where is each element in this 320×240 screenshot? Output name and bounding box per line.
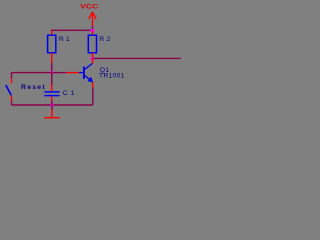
switch Reset arm bbox=[6, 85, 11, 95]
wire: base junction to transistor base pin bbox=[52, 72, 67, 74]
resistor R1 pin bottom bbox=[51, 53, 53, 63]
transistor Q1 bbox=[79, 63, 93, 82]
node: R2 bottom junction bbox=[91, 57, 94, 60]
node: VCC junction bbox=[91, 29, 95, 32]
capacitor C1 pin top bbox=[51, 85, 53, 92]
wire: horizontal from R2 bottom to right edge bbox=[93, 57, 181, 59]
transistor Q1 collector pin bbox=[92, 59, 94, 64]
svg-text:VCC: VCC bbox=[80, 4, 98, 11]
svg-text:Reset: Reset bbox=[21, 84, 45, 91]
wire: VCC stem lower part bbox=[92, 26, 94, 30]
wire: switch top corner to base junction bbox=[12, 72, 52, 74]
node: base junction bbox=[50, 71, 53, 74]
ground: wire below junction bbox=[51, 105, 53, 110]
resistor R2 pin bottom bbox=[92, 53, 94, 59]
node: ground junction bbox=[50, 104, 53, 107]
resistor R1 pin top bbox=[51, 31, 53, 36]
switch Reset top pin bbox=[11, 78, 13, 83]
wire: R1 bottom to base junction bbox=[51, 63, 53, 73]
switch Reset bottom pin bbox=[11, 96, 13, 102]
wire: base junction down toward capacitor bbox=[51, 73, 53, 85]
wire: corner down to R1 pin bbox=[51, 30, 53, 31]
resistor R2 body bbox=[88, 35, 96, 53]
resistor R2 pin top bbox=[92, 31, 94, 35]
capacitor C1 plates bbox=[44, 91, 59, 93]
svg-text:TR1001: TR1001 bbox=[99, 73, 125, 80]
transistor Q1 base pin bbox=[67, 72, 80, 74]
transistor Q1 emitter pin bbox=[92, 82, 94, 88]
wire: capacitor to ground junction bbox=[51, 101, 53, 106]
wire: top horizontal R1 to VCC bbox=[51, 29, 93, 31]
capacitor C1 pin bottom bbox=[51, 97, 53, 101]
switch Reset: wire from top corner down bbox=[11, 73, 13, 79]
ground symbol bbox=[44, 110, 60, 118]
wire: switch bottom to rail corner bbox=[11, 101, 13, 105]
power symbol VCC arrow bbox=[89, 12, 95, 26]
wire: bottom horizontal rail bbox=[12, 104, 93, 106]
wire: emitter down to bottom rail bbox=[92, 88, 94, 106]
resistor R1 body bbox=[48, 35, 56, 53]
